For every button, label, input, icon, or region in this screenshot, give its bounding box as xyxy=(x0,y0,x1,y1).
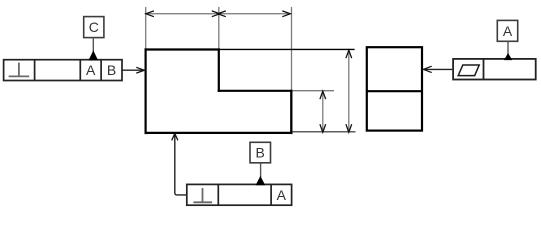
svg-text:C: C xyxy=(89,19,99,35)
svg-text:A: A xyxy=(86,62,96,78)
svg-text:A: A xyxy=(503,23,513,39)
svg-text:B: B xyxy=(256,144,265,160)
svg-text:A: A xyxy=(277,187,287,203)
svg-text:B: B xyxy=(107,62,116,78)
